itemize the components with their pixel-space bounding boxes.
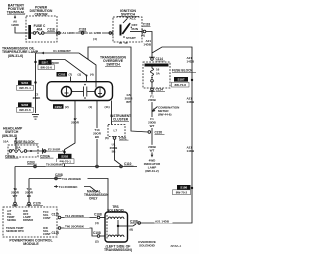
- svg-text:C108: C108: [94, 212, 102, 216]
- svg-text:FUSE BLOCK: FUSE BLOCK: [14, 140, 35, 144]
- svg-text:8W-70-4: 8W-70-4: [19, 86, 31, 90]
- svg-text:SOLENOID: SOLENOID: [139, 244, 156, 248]
- svg-text:CENTER: CENTER: [34, 13, 48, 17]
- svg-text:(8W-31-2): (8W-31-2): [145, 169, 158, 173]
- svg-text:S204: S204: [21, 81, 28, 85]
- svg-text:S202: S202: [61, 155, 68, 159]
- svg-text:C220: C220: [155, 131, 163, 135]
- svg-text:(6): (6): [105, 136, 109, 140]
- svg-text:A1 12RD: A1 12RD: [89, 31, 102, 35]
- svg-text:T60 20OR/BK: T60 20OR/BK: [65, 224, 85, 228]
- svg-text:C120: C120: [52, 231, 60, 235]
- svg-text:T14 20OR/BK: T14 20OR/BK: [59, 185, 79, 189]
- svg-text:SENSOR RTN: SENSOR RTN: [6, 229, 24, 233]
- svg-text:12RD: 12RD: [11, 23, 20, 27]
- svg-text:ACC: ACC: [130, 16, 137, 20]
- svg-text:C114: C114: [156, 57, 164, 61]
- svg-text:C201: C201: [119, 136, 127, 140]
- svg-text:WT: WT: [150, 149, 155, 153]
- svg-text:U1 22DB/WT: U1 22DB/WT: [53, 49, 71, 53]
- svg-text:T14 20OR/BK: T14 20OR/BK: [65, 214, 85, 218]
- svg-text:(8W-31-6): (8W-31-6): [8, 54, 23, 58]
- svg-text:20DB: 20DB: [148, 98, 157, 102]
- svg-text:START: START: [126, 36, 136, 40]
- svg-text:TERMINAL: TERMINAL: [7, 11, 26, 15]
- svg-text:15A: 15A: [15, 146, 21, 150]
- svg-text:(6): (6): [130, 228, 134, 232]
- svg-text:(4): (4): [95, 221, 99, 225]
- svg-text:C118: C118: [79, 28, 87, 32]
- svg-text:RUN: RUN: [132, 27, 139, 31]
- svg-text:L7: L7: [114, 129, 118, 133]
- svg-text:C114: C114: [156, 88, 164, 92]
- svg-text:8W-15-6: 8W-15-6: [19, 108, 31, 112]
- svg-text:C108: C108: [130, 219, 138, 223]
- svg-text:E2 20OR: E2 20OR: [48, 147, 61, 151]
- svg-text:T9 20OR/WT: T9 20OR/WT: [46, 163, 64, 167]
- svg-text:C120: C120: [33, 202, 41, 206]
- svg-text:C118: C118: [143, 23, 151, 27]
- svg-text:C202: C202: [55, 105, 63, 109]
- svg-text:S186: S186: [180, 186, 187, 190]
- svg-text:14DB: 14DB: [187, 100, 196, 104]
- svg-text:40A: 40A: [37, 28, 44, 32]
- svg-text:CONT: CONT: [43, 216, 51, 220]
- svg-text:20OR: 20OR: [71, 121, 80, 125]
- svg-text:C110: C110: [124, 162, 132, 166]
- svg-text:10A: 10A: [3, 140, 9, 144]
- svg-text:ONLY: ONLY: [89, 197, 98, 201]
- svg-text:(8W-50-8): (8W-50-8): [2, 134, 17, 138]
- svg-text:TRANSMISSION): TRANSMISSION): [104, 248, 132, 252]
- svg-text:(4): (4): [93, 37, 97, 41]
- svg-text:(2): (2): [65, 105, 69, 109]
- svg-text:20BK: 20BK: [33, 96, 42, 100]
- svg-text:SWITCH: SWITCH: [106, 63, 120, 67]
- svg-text:(1): (1): [78, 73, 82, 77]
- svg-text:G4 20OR: G4 20OR: [46, 61, 60, 65]
- svg-text:14DB: 14DB: [143, 43, 152, 47]
- svg-text:(11): (11): [105, 105, 110, 109]
- svg-text:(2): (2): [95, 240, 99, 244]
- svg-text:14DB: 14DB: [187, 60, 196, 64]
- svg-text:MODULE: MODULE: [23, 242, 39, 246]
- svg-text:WT: WT: [13, 194, 18, 198]
- svg-text:T41 20OR/BK: T41 20OR/BK: [62, 177, 82, 181]
- svg-text:8W-70-8: 8W-70-8: [174, 83, 186, 87]
- svg-text:(7): (7): [69, 73, 73, 77]
- svg-text:FUSE BLOCK: FUSE BLOCK: [172, 69, 193, 73]
- svg-text:S203: S203: [21, 103, 28, 107]
- svg-text:C202: C202: [58, 73, 66, 77]
- svg-text:WT: WT: [150, 124, 155, 128]
- svg-text:(4): (4): [90, 73, 94, 77]
- svg-text:S187: S187: [177, 78, 184, 82]
- svg-text:J958A-4: J958A-4: [170, 244, 182, 248]
- svg-text:14DB: 14DB: [187, 149, 196, 153]
- svg-text:(8W-44-6): (8W-44-6): [158, 113, 171, 117]
- svg-text:8W-70-2: 8W-70-2: [176, 191, 188, 195]
- svg-text:C118: C118: [47, 28, 55, 32]
- svg-text:8W-31-6: 8W-31-6: [40, 66, 52, 70]
- svg-text:C108: C108: [93, 231, 101, 235]
- svg-text:(1): (1): [89, 105, 93, 109]
- svg-text:(4): (4): [141, 34, 145, 38]
- svg-text:WT: WT: [126, 100, 131, 104]
- svg-text:SENSE: SENSE: [7, 218, 16, 222]
- svg-text:CONT: CONT: [43, 232, 51, 236]
- svg-text:C203A: C203A: [40, 154, 51, 158]
- svg-text:C203A: C203A: [5, 154, 16, 158]
- svg-text:A1 12RD: A1 12RD: [62, 31, 75, 35]
- svg-text:C120: C120: [52, 212, 60, 216]
- svg-text:DRIVER: DRIVER: [23, 218, 33, 222]
- svg-text:C203: C203: [27, 160, 35, 164]
- svg-text:A21 14DB: A21 14DB: [155, 220, 170, 224]
- svg-text:CLUSTER: CLUSTER: [113, 118, 129, 122]
